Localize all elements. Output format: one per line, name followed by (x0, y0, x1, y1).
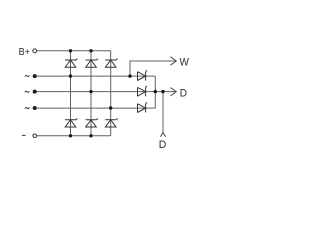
junction col2/B+ rail (89, 49, 92, 52)
wire bridge column 1 (70, 51, 72, 136)
diode D2 top of column 2 (86, 59, 98, 68)
label minus terminal (22, 134, 26, 136)
junction bus/phase2 (154, 90, 157, 93)
diode D7 trio row 1 (138, 70, 148, 80)
diode D6 bottom of column 3 (105, 118, 117, 127)
diode D3 top of column 3 (105, 59, 117, 68)
svg-text:W: W (180, 57, 190, 68)
wire B+ rail (37, 50, 111, 52)
wire phase line 1 (37, 75, 156, 77)
junction col1/B+ rail (69, 49, 72, 52)
label tilde phase1 (25, 75, 29, 76)
svg-text:B+: B+ (19, 46, 31, 58)
diode D5 bottom of column 2 (86, 118, 98, 127)
terminal minus open circle (33, 134, 37, 138)
junction col1/phase1 (69, 74, 72, 77)
diode D4 bottom of column 1 (65, 118, 77, 127)
diode D8 trio row 2 (138, 86, 148, 96)
diode D9 trio row 3 (138, 102, 148, 112)
terminal phase2 solid (33, 90, 37, 94)
junction col2/minus rail (89, 134, 92, 137)
junction W branch/phase1 (128, 74, 131, 77)
junction col1/minus rail (69, 134, 72, 137)
wire trio cathode bus (154, 76, 156, 108)
arrow W output (170, 57, 176, 65)
label tilde phase2 (25, 91, 29, 92)
junction col3/phase3 (109, 106, 112, 109)
svg-text:D: D (180, 88, 187, 99)
arrow D output right (170, 88, 176, 96)
wire phase line 3 (37, 107, 156, 109)
terminal phase1 solid (33, 74, 37, 78)
wire bridge column 3 (110, 51, 112, 136)
diode D1 top of column 1 (65, 59, 77, 68)
label tilde phase3 (25, 108, 29, 109)
wire bridge column 2 (90, 51, 92, 136)
wire W branch (130, 61, 176, 76)
junction col2/phase2 (89, 90, 92, 93)
arrow D output bottom (pointing up) (160, 133, 165, 137)
svg-text:D: D (159, 139, 167, 151)
wire bottom minus rail (37, 135, 111, 137)
wire phase line 2 to D output (37, 91, 176, 93)
terminal phase3 solid (33, 106, 37, 110)
junction D-down/phase2 (161, 90, 164, 93)
wire D down branch (162, 92, 164, 133)
terminal B+ open circle (33, 49, 37, 53)
